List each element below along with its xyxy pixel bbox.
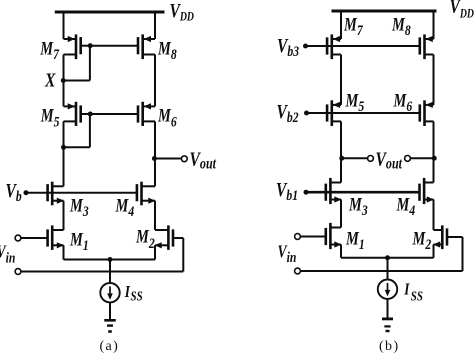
wire M5 drain to output (b) [340, 121, 342, 158]
label X [44, 69, 56, 91]
label Vb [6, 179, 22, 204]
wire X horizontal [64, 80, 90, 82]
transistor M4 (b) [424, 182, 433, 184]
wire VDD to M8 source (b) [433, 11, 435, 39]
terminal Vout (a) [181, 156, 187, 162]
transistor M6 [143, 105, 155, 107]
junction Vout (a) [152, 156, 157, 161]
svg-text:SS: SS [131, 288, 143, 304]
node Vb1 [304, 190, 309, 195]
terminal Vin+ (a) [15, 235, 21, 241]
label (b) [379, 339, 400, 354]
node Vb [24, 190, 29, 195]
label Vb3 [277, 34, 299, 59]
current source ISS (b) [378, 280, 397, 299]
label ISS (b) [403, 280, 410, 299]
label M3 (b) [348, 194, 368, 219]
label M1 (b) [345, 228, 365, 253]
junction right output (b) [432, 156, 437, 161]
transistor M5 [64, 105, 77, 107]
label Vout (b) [376, 147, 404, 173]
transistor M2 (b) [434, 229, 443, 231]
label M4 [115, 195, 135, 220]
wire M8 drain to M6 source (b) [433, 55, 435, 105]
transistor M2 [155, 229, 168, 231]
label Vin (a) [0, 243, 15, 266]
tail wire (a) [64, 259, 156, 261]
VDD rail (b) [332, 10, 437, 13]
label M7 (b) [343, 14, 364, 39]
wire M5 gate to M6 gate [90, 113, 138, 115]
svg-text:SS: SS [411, 288, 423, 304]
wire M3 source to M1 drain (b) [340, 200, 342, 228]
ground (a) [104, 319, 116, 322]
transistor M8 (b) [425, 38, 434, 40]
label M4 (b) [396, 194, 416, 219]
label M8 [157, 38, 177, 63]
wire tail to current source (b) [387, 258, 389, 280]
wire output to M3 drain (b) [340, 158, 342, 182]
terminal Vin- (b) [295, 268, 301, 274]
svg-text:X: X [44, 69, 56, 91]
transistor M6 (b) [425, 104, 434, 106]
wire M5 drain down to M3 drain [63, 121, 65, 186]
terminal Vin- (a) [15, 269, 21, 275]
label M3 [69, 195, 89, 220]
junction left output (b) [339, 156, 344, 161]
wire Vb2 to M5 and M6 gates [307, 112, 420, 114]
wire M4 source to M2 drain (b) [433, 200, 435, 231]
label M5 (b) [345, 90, 365, 115]
label M8 (b) [391, 14, 411, 39]
wire M6 drain to output (b) [433, 121, 435, 158]
wire M7 gate to M8 gate [90, 45, 138, 47]
junction M5 drain [61, 145, 66, 150]
label M5 [40, 105, 60, 130]
wire M4 source to M2 drain [154, 201, 156, 230]
label M7 [39, 38, 60, 63]
label Vb1 [276, 178, 298, 203]
wire Vin+ to M1 gate (b) [300, 236, 326, 238]
label M6 [157, 105, 177, 130]
wire from right Vout terminal [410, 157, 433, 159]
junction tail (b) [385, 255, 390, 260]
wire M1 source to tail (b) [340, 245, 342, 258]
VDD label (a) [170, 0, 194, 24]
wire VDD to M7 source [63, 12, 65, 39]
wire M5 gate tie down [89, 114, 91, 147]
wire M2 source to tail (b) [433, 245, 435, 258]
node Vb3 [303, 44, 308, 49]
label M2 (b) [412, 228, 432, 253]
svg-text:(a): (a) [100, 339, 120, 354]
wire gate tie down to node X [89, 46, 91, 81]
wire Vb1 to M3 and M4 gates [306, 191, 420, 194]
wire M7 drain to M5 source [63, 55, 65, 107]
wire Vin+ to M1 gate [21, 237, 48, 239]
wire tail to current source [109, 260, 111, 284]
label ISS (a) [124, 283, 131, 302]
tail wire (b) [341, 257, 434, 259]
wire current source to ground (b) [387, 299, 389, 318]
wire Vin- to M2 gate [21, 271, 184, 273]
wire output node to M4 drain [154, 159, 156, 187]
transistor M5 (b) [332, 104, 341, 106]
label Vout (a) [190, 147, 218, 173]
wire current source to ground [109, 302, 111, 319]
transistor M3 [52, 185, 63, 187]
wire M6 drain to output node [154, 121, 156, 158]
terminal Vout left (b) [368, 156, 374, 162]
wire M7 drain to M5 source (b) [340, 55, 342, 105]
label (a) [100, 339, 120, 354]
label M1 [69, 229, 89, 254]
wire M2 source to tail [154, 245, 156, 259]
wire to Vout terminal [155, 158, 181, 160]
label M6 (b) [393, 90, 413, 115]
svg-text:(b): (b) [379, 339, 400, 354]
VDD rail (a) [55, 11, 165, 14]
node X [61, 78, 66, 83]
wire gate tie to drain [64, 146, 90, 148]
wire VDD to M8 source [154, 12, 156, 39]
current source ISS (a) [100, 283, 119, 302]
transistor M3 (b) [330, 182, 341, 184]
transistor M8 [143, 38, 155, 40]
wire to left Vout terminal [341, 157, 368, 159]
label Vin (b) [278, 243, 297, 265]
transistor M7 (b) [332, 38, 341, 40]
transistor M1 (b) [330, 227, 341, 229]
wire M1 source to tail [63, 245, 65, 259]
terminal Vin+ (b) [295, 234, 301, 240]
ground (b) [382, 317, 393, 320]
wire M8 drain to M6 source [154, 55, 156, 107]
wire Vb3 to M7 and M8 gates [306, 45, 420, 47]
junction tail (a) [108, 257, 113, 262]
wire VDD to M7 source (b) [340, 11, 342, 39]
node Vb2 [304, 111, 309, 116]
junction M5 gate [88, 112, 93, 117]
junction M7 gate [88, 43, 93, 48]
transistor M1 [52, 229, 63, 231]
wire output to M4 drain (b) [433, 158, 435, 182]
wire Vb gate line to M3 and M4 [26, 192, 137, 194]
VDD label (b) [450, 0, 474, 21]
transistor M7 [64, 38, 77, 40]
svg-text:I: I [403, 280, 410, 299]
label M2 [135, 226, 155, 252]
wire M3 source to M1 drain [63, 201, 65, 230]
transistor M4 [142, 185, 156, 187]
label Vb2 [277, 100, 299, 125]
terminal Vout right (b) [405, 156, 411, 162]
wire Vin- to M2 gate (b) [300, 270, 462, 272]
